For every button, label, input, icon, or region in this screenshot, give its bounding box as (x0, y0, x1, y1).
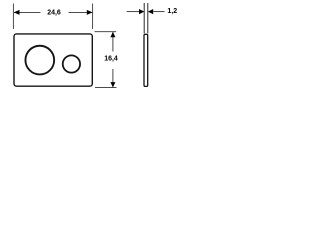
dimension tail left of 1,2 (127, 11, 140, 13)
dimension line 24,6 left segment (14, 11, 41, 13)
flush plate front view (14, 34, 92, 86)
arrowhead pointing right at plate left face (139, 9, 144, 14)
dimension line 16,4 bottom segment (112, 69, 114, 87)
extension line left (width dim) (12, 4, 14, 30)
arrowhead down of 16,4 (110, 82, 115, 87)
dimension line 24,6 right segment (69, 11, 93, 13)
extension tick bottom (height dim) (95, 87, 117, 89)
extension tick top (height dim) (95, 31, 117, 33)
extension line right (width dim) (92, 4, 94, 30)
small flush button circle (63, 55, 80, 72)
svg-text:16,4: 16,4 (104, 55, 118, 62)
arrowhead pointing left at plate right face (148, 9, 153, 14)
extension line right (thickness dim) (147, 3, 149, 33)
svg-text:24,6: 24,6 (47, 10, 61, 17)
svg-text:1,2: 1,2 (167, 8, 177, 15)
extension line left (thickness dim) (143, 3, 145, 33)
arrowhead right of 24,6 (87, 10, 93, 15)
flush plate side view (144, 34, 148, 86)
dimension line 16,4 top segment (112, 32, 114, 52)
dimension tail right of 1,2 (153, 11, 164, 13)
arrowhead up of 16,4 (110, 32, 115, 37)
large flush button circle (25, 46, 54, 75)
arrowhead left of 24,6 (14, 10, 20, 15)
